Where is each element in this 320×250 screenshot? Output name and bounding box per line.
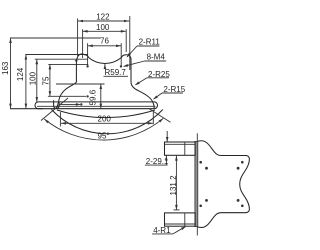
wire: extension line 124 top <box>25 54 88 56</box>
svg-text:124: 124 <box>16 67 25 81</box>
hole dot row3 with pointer <box>59 103 80 105</box>
dimension 100 left <box>28 59 38 102</box>
label 2-R11 <box>126 37 161 58</box>
label 2-R15 <box>152 85 186 100</box>
svg-text:100: 100 <box>28 71 37 85</box>
flare right (R25) <box>131 82 154 108</box>
bottom block <box>165 213 196 226</box>
base plate (stadium, 2-R15 ends) <box>35 102 158 109</box>
svg-text:2-R11: 2-R11 <box>139 37 161 46</box>
label 8-M4 <box>123 53 167 68</box>
dimension 59.6 <box>56 84 105 109</box>
svg-text:100: 100 <box>96 23 110 32</box>
svg-text:76: 76 <box>100 37 109 46</box>
svg-text:131.2: 131.2 <box>169 175 178 196</box>
label 4-R1 <box>152 225 187 235</box>
VESA holes inner <box>205 167 208 170</box>
thin tab line bottom <box>196 227 198 236</box>
svg-text:R59.7: R59.7 <box>105 68 127 77</box>
svg-text:95°: 95° <box>98 131 110 140</box>
label 2-R25 <box>134 70 170 87</box>
wire: baseline extension bottom <box>10 108 43 110</box>
svg-text:122: 122 <box>96 12 110 21</box>
dimension 75 <box>42 64 52 96</box>
wire: extension line 75 top <box>48 63 88 65</box>
VESA holes outer <box>199 161 202 164</box>
crescent inner arc <box>57 110 155 118</box>
dimension 76 <box>88 37 122 67</box>
dimension 200 <box>60 112 153 127</box>
right radial stub <box>150 109 171 122</box>
M4 hole dots row1 <box>86 65 88 67</box>
bracket top outline (ears with R11 bumps and R59.7 dip) <box>76 54 131 82</box>
svg-text:59.6: 59.6 <box>89 89 98 105</box>
plate strip (edge-on, filled) <box>195 141 198 226</box>
dimension 124 <box>16 55 27 109</box>
dimension 163 <box>1 38 12 109</box>
flare left (R25) <box>56 82 76 108</box>
step tick top-left <box>75 60 78 62</box>
angular dimension arc 95 <box>44 118 163 140</box>
VESA star plate outline <box>198 141 250 228</box>
label R59.7 <box>104 64 129 77</box>
base inner line <box>37 105 156 107</box>
svg-text:2-29.1: 2-29.1 <box>146 157 169 166</box>
svg-text:163: 163 <box>1 61 10 75</box>
label 2-29.1 <box>145 131 169 166</box>
left radial stub <box>41 98 68 121</box>
wire: extension line 100-left top <box>35 58 88 60</box>
wire: extension line 163 top <box>10 37 101 39</box>
top block <box>165 142 196 155</box>
thin tab line top <box>196 133 198 141</box>
svg-text:8-M4: 8-M4 <box>147 53 166 62</box>
dimension 122 <box>78 12 130 70</box>
hole dot row2 with pointer <box>48 95 86 97</box>
svg-text:75: 75 <box>42 76 51 85</box>
svg-text:200: 200 <box>98 115 112 124</box>
dimension 131.2 <box>169 156 180 210</box>
dimension 100 top <box>83 23 127 58</box>
bottom outline arc of sector <box>52 110 163 134</box>
foot U <box>54 100 60 108</box>
